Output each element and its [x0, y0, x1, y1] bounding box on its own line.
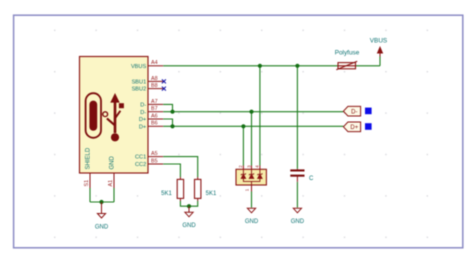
pin A8 SBU1 [148, 80, 163, 82]
svg-text:A1: A1 [108, 180, 114, 187]
svg-text:D-: D- [140, 110, 146, 116]
svg-text:B8: B8 [151, 83, 158, 89]
svg-text:D+: D+ [139, 124, 146, 130]
junction D- pair [170, 110, 174, 114]
svg-text:SBU2: SBU2 [132, 87, 147, 93]
pin A4 VBUS [148, 65, 163, 67]
power symbol VBUS [370, 38, 387, 57]
pin A1 GND [113, 173, 115, 188]
diodes [241, 169, 262, 185]
connector J1 body [80, 57, 149, 174]
wire shield S1 down [89, 188, 91, 202]
resistor R left 5K1 [161, 177, 183, 201]
wire R bottoms join [180, 201, 197, 206]
svg-text:GND: GND [245, 219, 259, 225]
pin stubs right [90, 66, 163, 188]
pin B8 SBU2 [148, 88, 163, 90]
blue square marker D+ [365, 123, 372, 130]
svg-text:SBU1: SBU1 [132, 80, 147, 86]
wire D- drop to TVS pin3 [251, 112, 253, 166]
body [236, 169, 266, 185]
svg-text:GND: GND [109, 156, 115, 170]
pin A5 CC1 [148, 156, 163, 158]
junction VBUS/TVS [258, 64, 262, 68]
wire CC1 to R right [163, 157, 198, 177]
no-connect X on SBU1 [162, 79, 166, 90]
svg-text:VBUS: VBUS [131, 64, 147, 70]
resistor R right 5K1 [195, 177, 217, 201]
junction D+ drop [241, 124, 245, 128]
svg-text:GND: GND [291, 219, 305, 225]
wires (green) [90, 57, 380, 208]
pin stub bottom [251, 185, 253, 192]
pin numbers [238, 165, 260, 192]
svg-text:VBUS: VBUS [370, 38, 387, 45]
pin stubs top [242, 166, 244, 170]
wire TVS pin1 to gnd [251, 192, 253, 208]
wire A7 jog down [163, 104, 172, 111]
pin names (teal, inside) [131, 64, 147, 168]
svg-text:D-: D- [351, 110, 357, 116]
svg-text:B5: B5 [151, 158, 158, 164]
wire VBUS drop to capacitor [296, 66, 298, 169]
svg-text:CC1: CC1 [135, 155, 146, 161]
svg-text:A8: A8 [151, 76, 158, 82]
wire D+ drop to TVS pin2 [242, 126, 244, 165]
wire capacitor to gnd [296, 182, 298, 208]
svg-text:A6: A6 [151, 113, 158, 119]
junction D- drop [249, 110, 253, 114]
wire VBUS drop to TVS pin4 [259, 66, 261, 166]
svg-text:GND: GND [95, 224, 109, 230]
ground capacitor [291, 208, 305, 225]
junction shield gnd [99, 200, 103, 204]
wire VBUS horizontal [163, 65, 338, 67]
junction D+ pair [170, 124, 174, 128]
no-connect X on SBU2 [162, 87, 166, 91]
pin A7 D- [148, 103, 163, 105]
blue square marker D- [365, 108, 372, 115]
svg-text:A5: A5 [151, 151, 158, 157]
ground shield [95, 202, 109, 230]
svg-text:C: C [309, 176, 314, 182]
svg-text:SHIELD: SHIELD [85, 147, 91, 169]
pin numbers (dark red) [151, 60, 158, 164]
wire B6 / D+ horizontal [163, 125, 343, 127]
wire B7 / D- horizontal [163, 111, 343, 113]
ground resistors [182, 206, 196, 229]
global label D- [343, 106, 360, 116]
wire VBUS up to power arrow [379, 57, 381, 66]
capacitor C [290, 169, 314, 182]
USB trident icon [103, 93, 124, 141]
junction dots [99, 64, 299, 209]
svg-text:B6: B6 [151, 121, 158, 127]
junction VBUS/C [295, 64, 299, 68]
pin A6 D+ [148, 118, 163, 120]
wire gnd A1 down [113, 188, 115, 202]
global label D+ [343, 122, 360, 132]
USB-C receptacle icon [86, 93, 101, 138]
svg-text:A7: A7 [151, 99, 158, 105]
wire shield bottom join [90, 201, 114, 203]
pin B7 D- [148, 111, 163, 113]
wire fuse right to corner [356, 65, 381, 67]
svg-text:B7: B7 [151, 106, 158, 112]
pin B5 CC2 [148, 163, 163, 165]
wire A6 jog down [163, 119, 172, 126]
TVS diode array U1 [236, 165, 266, 192]
svg-text:A4: A4 [151, 60, 158, 66]
svg-text:D+: D+ [139, 117, 146, 123]
wire CC2 to R left [163, 164, 180, 177]
svg-text:Polyfuse: Polyfuse [335, 50, 360, 57]
svg-text:D-: D- [140, 103, 146, 109]
junction resistors gnd [187, 204, 191, 208]
pin S1 SHIELD [89, 173, 91, 188]
svg-text:D+: D+ [350, 125, 358, 131]
svg-text:S1: S1 [84, 180, 90, 187]
svg-text:5K1: 5K1 [161, 191, 172, 197]
svg-text:5K1: 5K1 [206, 191, 217, 197]
polyfuse F1 [335, 50, 360, 70]
pin B6 D+ [148, 125, 163, 127]
svg-text:GND: GND [182, 223, 196, 229]
ground TVS [245, 208, 259, 225]
svg-text:CC2: CC2 [135, 162, 146, 168]
